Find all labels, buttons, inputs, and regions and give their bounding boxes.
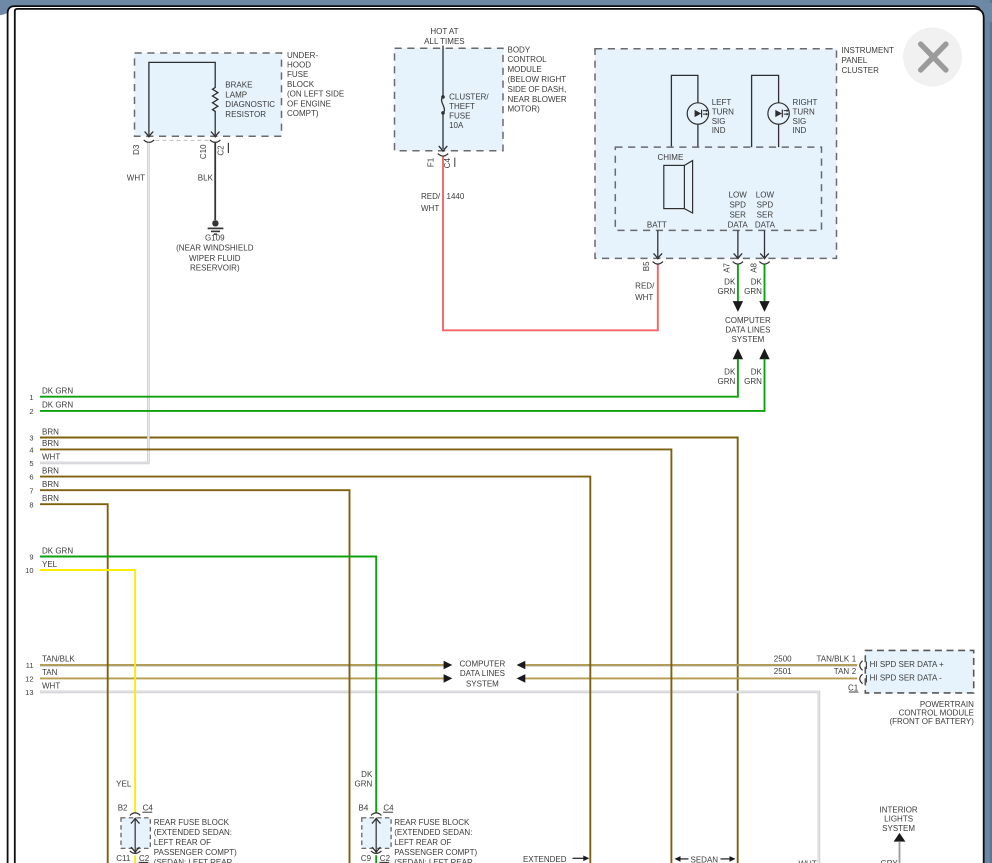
svg-text:C4: C4 xyxy=(443,158,452,169)
wire 8 BRN xyxy=(40,504,108,863)
wire internal loop underhood xyxy=(149,62,215,135)
svg-text:MOTOR): MOTOR) xyxy=(508,105,541,114)
connector arc C10/C2 xyxy=(210,140,220,143)
svg-text:A7: A7 xyxy=(722,262,731,272)
connector arc B4 xyxy=(371,813,381,816)
connector arc B5 xyxy=(653,262,663,265)
wire loop right turn indicator xyxy=(752,75,779,147)
svg-text:C9: C9 xyxy=(361,854,372,863)
wire 6 BRN xyxy=(40,477,590,863)
op lamp left turn sig ind xyxy=(687,103,708,124)
svg-text:(EXTENDED SEDAN:: (EXTENDED SEDAN: xyxy=(394,828,472,837)
rear fuse block 1 box xyxy=(121,818,150,849)
arrows up into computer data lines xyxy=(733,348,743,359)
arrow through rear fuse block 2 xyxy=(375,818,377,852)
svg-text:TURN: TURN xyxy=(793,108,815,117)
arrow into C10 xyxy=(211,132,220,137)
svg-text:REAR FUSE BLOCK: REAR FUSE BLOCK xyxy=(394,818,470,827)
svg-text:G109: G109 xyxy=(205,234,225,243)
top-right blue corner wedge xyxy=(970,3,992,22)
svg-text:IND: IND xyxy=(712,126,726,135)
wire 10 YEL xyxy=(40,570,135,813)
wire from hot at all times xyxy=(442,46,444,97)
svg-text:(ON LEFT SIDE: (ON LEFT SIDE xyxy=(287,90,344,99)
svg-text:TAN: TAN xyxy=(834,667,850,676)
svg-text:LIGHTS: LIGHTS xyxy=(884,815,913,824)
svg-text:(SEDAN: LEFT REAR: (SEDAN: LEFT REAR xyxy=(154,858,233,863)
svg-text:DATA: DATA xyxy=(755,220,776,229)
svg-text:UNDER-: UNDER- xyxy=(287,51,318,60)
svg-text:INTERIOR: INTERIOR xyxy=(879,805,917,814)
svg-text:SIG: SIG xyxy=(712,117,726,126)
wire BLK to ground xyxy=(214,142,216,220)
connector arc F1/C4 xyxy=(438,154,448,157)
svg-text:1: 1 xyxy=(852,654,857,663)
svg-text:WHT: WHT xyxy=(42,453,60,462)
svg-text:TAN/BLK: TAN/BLK xyxy=(42,655,75,664)
resistor brake lamp diagnostic xyxy=(213,88,218,136)
svg-text:SPD: SPD xyxy=(729,201,746,210)
op lamp right turn sig ind xyxy=(768,103,789,124)
svg-text:8: 8 xyxy=(29,500,33,509)
svg-text:SER: SER xyxy=(757,210,774,219)
svg-text:PASSENGER COMPT): PASSENGER COMPT) xyxy=(154,848,237,857)
svg-text:SER: SER xyxy=(729,210,746,219)
svg-text:GRN: GRN xyxy=(744,377,762,386)
svg-text:GRN: GRN xyxy=(718,287,736,296)
arrow up interior lights xyxy=(894,833,906,842)
svg-text:DK GRN: DK GRN xyxy=(42,401,73,410)
svg-text:7: 7 xyxy=(29,486,33,495)
svg-text:GRY: GRY xyxy=(881,859,899,863)
svg-text:(FRONT OF BATTERY): (FRONT OF BATTERY) xyxy=(889,717,974,726)
wire 11 TAN/BLK left segment xyxy=(40,664,444,666)
svg-text:BODY: BODY xyxy=(508,45,531,54)
wire low spd to A8 xyxy=(764,231,766,258)
svg-text:FUSE: FUSE xyxy=(449,112,470,121)
svg-text:B4: B4 xyxy=(359,804,369,813)
body control module box xyxy=(395,48,504,151)
svg-text:FUSE: FUSE xyxy=(287,70,308,79)
wire RED/WHT from F1 to B5 xyxy=(443,157,658,331)
svg-text:YEL: YEL xyxy=(42,560,58,569)
svg-text:MODULE: MODULE xyxy=(508,65,542,74)
svg-text:C4: C4 xyxy=(383,804,394,813)
connector arc pin 2 xyxy=(860,674,863,684)
svg-text:REAR FUSE BLOCK: REAR FUSE BLOCK xyxy=(154,818,230,827)
svg-text:SYSTEM: SYSTEM xyxy=(731,335,764,344)
powertrain control module box xyxy=(865,650,973,693)
svg-text:ALL TIMES: ALL TIMES xyxy=(424,37,464,46)
connector arc C9 xyxy=(371,851,381,854)
svg-text:SEDAN: SEDAN xyxy=(691,856,719,863)
arrow into D3 xyxy=(145,132,154,137)
svg-text:BRN: BRN xyxy=(42,480,59,489)
wire 12 TAN left segment xyxy=(40,677,444,679)
svg-text:RED/: RED/ xyxy=(421,192,441,201)
svg-text:EXTENDED: EXTENDED xyxy=(523,855,567,863)
svg-text:WHT: WHT xyxy=(42,682,60,691)
svg-text:LEFT: LEFT xyxy=(712,98,732,107)
svg-text:2: 2 xyxy=(852,667,857,676)
wire 5 WHT xyxy=(40,143,148,463)
svg-text:BRAKE: BRAKE xyxy=(225,81,252,90)
svg-text:D3: D3 xyxy=(132,144,141,155)
svg-text:COMPUTER: COMPUTER xyxy=(725,316,771,325)
svg-text:11: 11 xyxy=(26,661,34,670)
svg-text:RESERVOIR): RESERVOIR) xyxy=(190,263,240,272)
svg-text:SYSTEM: SYSTEM xyxy=(466,679,499,688)
wire 4 BRN xyxy=(40,449,671,863)
svg-text:DK GRN: DK GRN xyxy=(42,546,73,555)
connector arc pin 1 xyxy=(860,661,863,671)
svg-text:LOW: LOW xyxy=(729,191,748,200)
svg-text:BATT: BATT xyxy=(647,220,667,229)
wire 12 TAN right segment xyxy=(525,677,857,679)
svg-text:(EXTENDED SEDAN:: (EXTENDED SEDAN: xyxy=(154,828,232,837)
wire low spd to A7 xyxy=(737,231,739,258)
svg-text:HI SPD SER DATA -: HI SPD SER DATA - xyxy=(870,674,942,683)
speaker chime symbol xyxy=(664,165,685,208)
svg-text:LEFT REAR OF: LEFT REAR OF xyxy=(394,838,451,847)
svg-text:BRN: BRN xyxy=(42,439,59,448)
wire DK GRN stub below C9 xyxy=(375,855,377,863)
wire GRY interior lights xyxy=(899,841,901,863)
svg-text:SIDE OF DASH,: SIDE OF DASH, xyxy=(508,85,567,94)
wire YEL stub below C11 xyxy=(134,855,136,863)
svg-text:HOT AT: HOT AT xyxy=(430,27,458,36)
svg-text:BRN: BRN xyxy=(42,494,59,503)
connector arc C11 xyxy=(130,851,140,854)
svg-text:HI SPD SER DATA +: HI SPD SER DATA + xyxy=(870,660,944,669)
node computer data lines system (middle) xyxy=(444,661,453,670)
svg-text:A8: A8 xyxy=(749,262,758,272)
wire DK GRN A8 down xyxy=(764,264,766,301)
svg-text:DK: DK xyxy=(724,278,736,287)
svg-text:F1: F1 xyxy=(427,157,436,167)
svg-text:SPD: SPD xyxy=(757,201,774,210)
svg-text:COMPT): COMPT) xyxy=(287,109,319,118)
svg-text:DK: DK xyxy=(751,368,763,377)
svg-text:B2: B2 xyxy=(118,804,128,813)
svg-text:TAN/BLK: TAN/BLK xyxy=(816,654,849,663)
svg-text:GRN: GRN xyxy=(744,287,762,296)
svg-text:C2: C2 xyxy=(380,854,391,863)
svg-text:(NEAR WINDSHIELD: (NEAR WINDSHIELD xyxy=(176,243,254,252)
svg-text:DIAGNOSTIC: DIAGNOSTIC xyxy=(225,100,275,109)
svg-text:2: 2 xyxy=(29,407,33,416)
svg-text:10A: 10A xyxy=(449,121,464,130)
svg-text:3: 3 xyxy=(29,434,33,443)
svg-text:WHT: WHT xyxy=(635,293,653,302)
arrow into F1 xyxy=(439,146,448,151)
svg-text:WHT: WHT xyxy=(421,204,439,213)
svg-text:BLOCK: BLOCK xyxy=(287,80,315,89)
svg-text:CLUSTER/: CLUSTER/ xyxy=(449,93,489,102)
svg-text:10: 10 xyxy=(25,566,33,575)
svg-text:6: 6 xyxy=(29,473,33,482)
svg-text:C2: C2 xyxy=(216,145,225,156)
svg-text:THEFT: THEFT xyxy=(449,102,475,111)
svg-text:C11: C11 xyxy=(116,854,131,863)
svg-text:C1: C1 xyxy=(848,683,859,692)
svg-text:RIGHT: RIGHT xyxy=(793,98,818,107)
label SEDAN arrows xyxy=(675,856,681,862)
fuse cluster/theft 10A xyxy=(441,95,445,99)
connector arc A7 xyxy=(733,262,743,265)
wire 7 BRN xyxy=(40,490,350,863)
svg-text:HOOD: HOOD xyxy=(287,61,311,70)
svg-text:PANEL: PANEL xyxy=(842,56,868,65)
svg-text:(BELOW RIGHT: (BELOW RIGHT xyxy=(508,75,567,84)
svg-text:INSTRUMENT: INSTRUMENT xyxy=(842,46,895,55)
svg-text:IND: IND xyxy=(793,126,807,135)
svg-text:TAN: TAN xyxy=(42,668,58,677)
chime inner box xyxy=(615,147,821,230)
svg-text:4: 4 xyxy=(29,446,33,455)
svg-text:BLK: BLK xyxy=(198,174,214,183)
wire 13 WHT xyxy=(40,692,819,863)
svg-text:1440: 1440 xyxy=(447,192,465,201)
svg-text:PASSENGER COMPT): PASSENGER COMPT) xyxy=(394,848,477,857)
svg-text:DATA LINES: DATA LINES xyxy=(725,325,770,334)
svg-text:DK: DK xyxy=(724,368,736,377)
svg-text:SIG: SIG xyxy=(793,117,807,126)
svg-text:BRN: BRN xyxy=(42,427,59,436)
top-left blue corner wedge xyxy=(0,4,12,15)
svg-text:YEL: YEL xyxy=(116,779,132,788)
svg-text:DK: DK xyxy=(751,278,763,287)
wire loop left turn indicator xyxy=(671,75,698,147)
svg-text:NEAR BLOWER: NEAR BLOWER xyxy=(508,95,567,104)
connector arc B2 xyxy=(130,813,140,816)
ground G109 xyxy=(212,220,218,226)
svg-text:TURN: TURN xyxy=(712,108,734,117)
svg-text:1: 1 xyxy=(29,393,33,402)
svg-text:B5: B5 xyxy=(642,261,651,271)
connector arc D3 xyxy=(144,140,154,143)
svg-text:C4: C4 xyxy=(143,804,154,813)
svg-text:WHT: WHT xyxy=(127,174,145,183)
svg-text:GRN: GRN xyxy=(355,779,373,788)
svg-text:(SEDAN: LEFT REAR: (SEDAN: LEFT REAR xyxy=(394,858,473,863)
svg-text:RED/: RED/ xyxy=(635,282,655,291)
arrow through rear fuse block 1 xyxy=(134,818,136,852)
svg-text:COMPUTER: COMPUTER xyxy=(460,659,506,668)
svg-text:2501: 2501 xyxy=(774,667,792,676)
wire 2 DK GRN xyxy=(40,359,765,411)
svg-text:CONTROL: CONTROL xyxy=(508,55,548,64)
svg-text:OF ENGINE: OF ENGINE xyxy=(287,99,331,108)
svg-text:DK GRN: DK GRN xyxy=(42,387,73,396)
svg-text:LOW: LOW xyxy=(756,191,775,200)
wire 1 DK GRN xyxy=(40,359,738,397)
svg-text:SYSTEM: SYSTEM xyxy=(882,824,915,833)
svg-text:5: 5 xyxy=(29,459,33,468)
pin bars PCM xyxy=(865,662,867,669)
wire batt to B5 xyxy=(657,231,659,258)
wire 3 BRN xyxy=(40,438,738,863)
svg-text:GRN: GRN xyxy=(718,377,736,386)
svg-text:BRN: BRN xyxy=(42,466,59,475)
wire 11 TAN/BLK right segment xyxy=(525,664,857,666)
connector arc A8 xyxy=(759,262,769,265)
svg-text:12: 12 xyxy=(25,675,33,684)
svg-text:DATA LINES: DATA LINES xyxy=(460,669,505,678)
svg-text:LAMP: LAMP xyxy=(225,90,247,99)
rear fuse block 2 box xyxy=(362,818,391,849)
instrument panel cluster box xyxy=(595,49,837,259)
svg-text:WHT: WHT xyxy=(799,860,817,863)
svg-text:WIPER FLUID: WIPER FLUID xyxy=(189,254,241,263)
svg-text:RESISTOR: RESISTOR xyxy=(225,110,266,119)
svg-text:2500: 2500 xyxy=(774,654,792,663)
close button xyxy=(903,28,962,87)
wire DK GRN A7 down xyxy=(737,264,739,301)
svg-text:C10: C10 xyxy=(199,144,208,159)
connector face line C2 xyxy=(156,139,210,141)
svg-text:C2: C2 xyxy=(139,854,150,863)
underhood fuse block box xyxy=(135,53,282,136)
wire 9 DK GRN xyxy=(40,557,376,813)
svg-text:DATA: DATA xyxy=(728,220,749,229)
svg-text:CLUSTER: CLUSTER xyxy=(842,66,880,75)
svg-text:CHIME: CHIME xyxy=(658,153,684,162)
svg-text:DK: DK xyxy=(361,770,373,779)
svg-text:9: 9 xyxy=(29,553,33,562)
svg-text:13: 13 xyxy=(25,688,33,697)
svg-text:LEFT REAR OF: LEFT REAR OF xyxy=(154,838,211,847)
